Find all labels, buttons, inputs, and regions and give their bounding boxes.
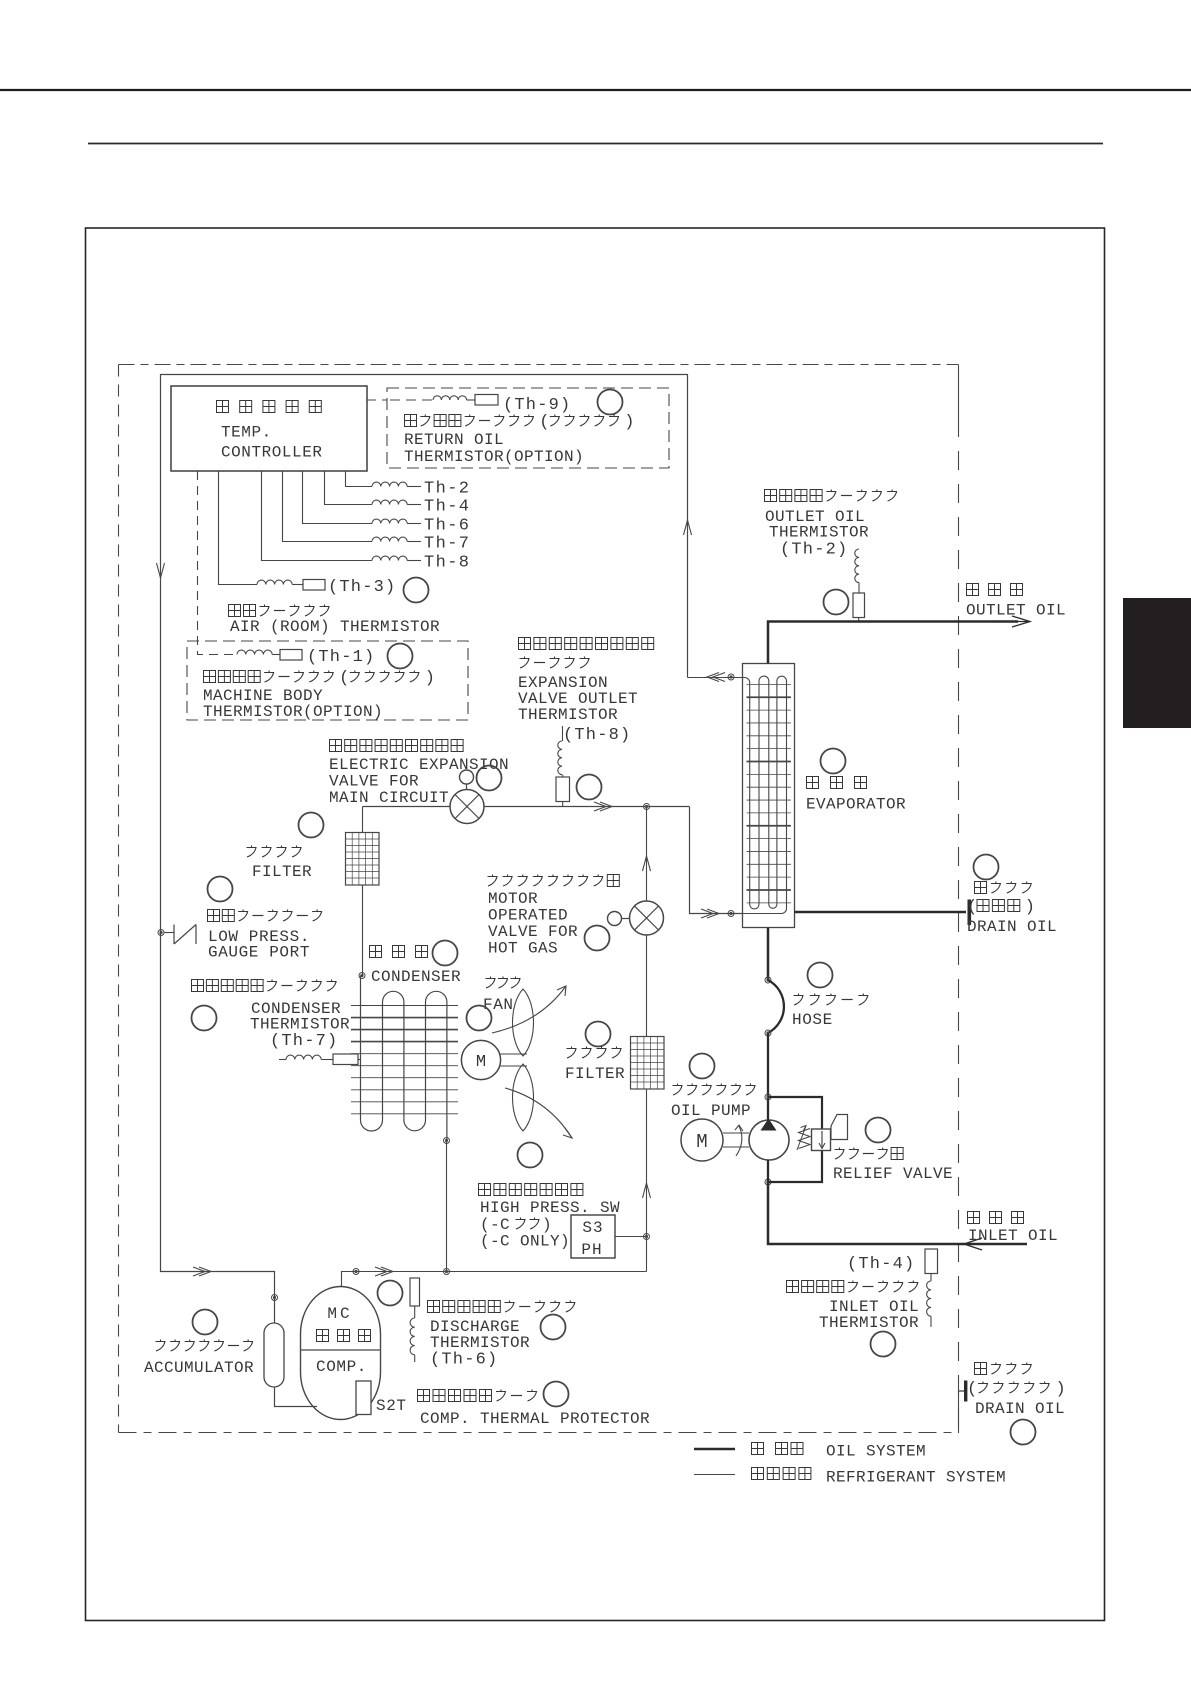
page top rule full width [0, 89, 1191, 91]
callout circle fan [467, 1006, 492, 1031]
Th-6 sensor body [410, 1278, 420, 1306]
svg-text:(: ( [539, 413, 549, 432]
svg-text:(Th-2): (Th-2) [780, 541, 848, 560]
node suction tap for gauge port [158, 930, 164, 936]
Th-9 lead to body [467, 399, 475, 401]
filter1 crosshatch body [346, 833, 380, 886]
wire S3 box to bypass line [615, 1236, 647, 1238]
svg-text:(Th-4): (Th-4) [847, 1255, 915, 1274]
drain pan tap [959, 1390, 965, 1392]
electric expansion valve labels [330, 740, 342, 752]
relief valve pilot box [831, 1115, 848, 1140]
wire valve outlet drop to evaporator inlet [690, 807, 743, 914]
accumulator labels [156, 1340, 166, 1352]
node hose bottom [765, 1030, 771, 1036]
Th-8 sensor drop wire [562, 726, 564, 741]
Th-2 sensor coil [855, 549, 859, 583]
drain pan labels [975, 1363, 987, 1375]
svg-text:ELECTRIC EXPANSION: ELECTRIC EXPANSION [329, 756, 509, 774]
svg-text:OUTLET OIL: OUTLET OIL [966, 602, 1066, 620]
callout circle relief valve [866, 1118, 891, 1143]
legend refrigerant labels [752, 1468, 764, 1480]
svg-text:DRAIN OIL: DRAIN OIL [975, 1400, 1065, 1418]
svg-text:(: ( [967, 1380, 977, 1399]
return oil thermistor Th-9 dashed option box [387, 388, 669, 468]
callout circle hose [808, 963, 833, 988]
thermal protector labels [418, 1390, 430, 1402]
callout circle Th-9 [598, 390, 623, 415]
lead Th-8 [407, 560, 421, 562]
relief valve adjust arrow [797, 1126, 806, 1150]
svg-text:THERMISTOR(OPTION): THERMISTOR(OPTION) [404, 448, 584, 466]
node pump bottom [765, 1179, 771, 1185]
svg-text:(Th-7): (Th-7) [270, 1032, 338, 1051]
inductor coil Th-9 [433, 396, 467, 400]
discharge nodes [353, 1269, 359, 1275]
oil outlet labels [967, 584, 979, 596]
compressor internal divider [300, 1349, 380, 1351]
svg-text:EVAPORATOR: EVAPORATOR [806, 796, 906, 814]
svg-text:THERMISTOR: THERMISTOR [819, 1314, 919, 1332]
relief valve labels [835, 1148, 845, 1160]
inductor coil Th-2 [372, 482, 407, 486]
callout circle outlet thermistor [824, 590, 849, 615]
pump direction triangle [761, 1119, 777, 1131]
arrow up on bypass riser [643, 856, 651, 871]
thermal protector S2T body [356, 1381, 371, 1415]
svg-text:HOT GAS: HOT GAS [488, 940, 558, 958]
fan blade upper [513, 989, 534, 1056]
gauge port lead [164, 932, 174, 934]
accumulator vessel [264, 1323, 284, 1387]
svg-text:THERMISTOR: THERMISTOR [518, 706, 618, 724]
arrow into evaporator inlet [707, 909, 719, 918]
evaporator serpentine [688, 676, 787, 913]
callout circle hot gas valve [585, 926, 610, 951]
air flow arrow upper [492, 986, 566, 1033]
svg-text:): ) [624, 413, 634, 432]
relief valve spring [799, 1129, 811, 1149]
Th-8 body to pipe [562, 775, 564, 777]
svg-text:Th-4: Th-4 [424, 498, 470, 517]
callout circle Th-8 [577, 775, 602, 800]
svg-text:(Th-9): (Th-9) [503, 396, 571, 415]
inductor coil Th-4 [372, 500, 407, 504]
svg-text:Th-2: Th-2 [424, 480, 470, 499]
thermistor body Th-9 [475, 395, 498, 406]
svg-text:(Th-8): (Th-8) [563, 726, 631, 745]
node S3 junction [644, 1234, 650, 1240]
legend refrigerant line [694, 1474, 735, 1476]
callout circle condenser [433, 941, 458, 966]
svg-text:TEMP.: TEMP. [221, 424, 272, 442]
callout circle evaporator [821, 749, 846, 774]
wire refrigerant suction line top and left [161, 375, 688, 1324]
condenser label japanese [370, 946, 382, 958]
svg-text:Th-6: Th-6 [424, 517, 470, 536]
callout circles discharge thermistor [378, 1281, 403, 1306]
wire filter1 to condenser [362, 885, 364, 975]
svg-text:MAIN CIRCUIT: MAIN CIRCUIT [329, 789, 449, 807]
inlet oil labels [968, 1212, 980, 1224]
arrow down on suction left drop [157, 563, 165, 578]
svg-text:OIL PUMP: OIL PUMP [671, 1102, 751, 1120]
air room thermistor label japanese [229, 605, 241, 617]
compressor shell [301, 1287, 381, 1420]
filter2 crosshatch body [631, 1037, 665, 1090]
svg-text:CONTROLLER: CONTROLLER [221, 444, 323, 462]
node condenser outlet bottom [444, 1138, 450, 1144]
svg-text:(: ( [339, 669, 349, 688]
machine boundary dashed top edge [119, 364, 959, 366]
arrow right on discharge [381, 1267, 393, 1276]
lead Th-6 [407, 523, 421, 525]
junction node above accumulator [272, 1295, 278, 1301]
machine body thermistor Th-1 dashed option box [187, 641, 468, 720]
svg-text:S3: S3 [582, 1219, 603, 1237]
arrow up on bypass lower [643, 1183, 651, 1198]
Th-9 label japanese [405, 415, 417, 427]
svg-text:(Th-6): (Th-6) [430, 1351, 498, 1370]
callout circle expansion valve [477, 766, 502, 791]
temp controller label kanji [217, 401, 229, 413]
svg-text:THERMISTOR: THERMISTOR [769, 524, 869, 542]
hose labels [794, 994, 804, 1006]
svg-text:(Th-1): (Th-1) [307, 648, 375, 667]
machine body thermistor label japanese [204, 671, 216, 683]
svg-text:COMP. THERMAL PROTECTOR: COMP. THERMAL PROTECTOR [420, 1410, 650, 1428]
compressor discharge wire [342, 1272, 647, 1287]
svg-text:PH: PH [581, 1241, 602, 1259]
legend oil system labels [752, 1443, 764, 1455]
temp controller box [171, 386, 367, 471]
fan label [486, 977, 496, 989]
black index tab on right edge [1123, 598, 1191, 728]
svg-text:): ) [425, 669, 435, 688]
svg-text:VALVE FOR: VALVE FOR [488, 923, 578, 941]
node evaporator outlet [728, 674, 734, 680]
node pump top [765, 1094, 771, 1100]
wire controller stub to Th-6 [303, 471, 373, 524]
motor operated valve stem [622, 918, 630, 920]
wire accumulator to compressor [275, 1387, 318, 1407]
bypass line valve to filter2 [646, 935, 648, 1036]
callout circle Th-3 [404, 578, 429, 603]
oil pump labels [673, 1084, 683, 1096]
drain end bar [968, 900, 972, 926]
wire condenser riser to expansion valve [363, 806, 451, 808]
evaporator oil drain pipe [795, 911, 967, 914]
wire controller stub to Th-7 [283, 471, 373, 542]
svg-text:THERMISTOR: THERMISTOR [250, 1016, 350, 1034]
expansion valve stem and motor head [466, 784, 468, 790]
page second rule [88, 143, 1103, 145]
wire controller stub to Th-3 [219, 471, 258, 585]
callout circle drain pan [1011, 1420, 1036, 1445]
junction node hot gas joins valve outlet [644, 804, 650, 810]
svg-text:): ) [542, 1216, 552, 1234]
pump body circle [749, 1120, 789, 1160]
wire condenser to discharge line [446, 1141, 448, 1272]
thermistor body Th-1 [280, 650, 302, 661]
wire expansion valve outlet [484, 806, 690, 808]
thermistor body Th-7 [333, 1054, 358, 1065]
main border frame [86, 228, 1105, 1621]
svg-text:OPERATED: OPERATED [488, 907, 568, 925]
svg-text:): ) [1056, 1380, 1066, 1399]
wire controller stub to Th-4 [325, 471, 373, 505]
oil outlet pipe from evaporator top [768, 622, 1018, 664]
svg-text:THERMISTOR: THERMISTOR [430, 1334, 530, 1352]
oil pipe evaporator bottom [767, 928, 770, 981]
Th-4 sensor body [925, 1249, 938, 1274]
air flow arrow lower [505, 1088, 572, 1138]
pump rotation arrow [736, 1126, 742, 1156]
svg-text:THERMISTOR(OPTION): THERMISTOR(OPTION) [203, 703, 383, 721]
callout circle accumulator [193, 1310, 218, 1335]
oil inlet pipe [768, 1182, 1027, 1244]
arrow on valve outlet wire [600, 802, 612, 811]
gauge port symbol [173, 925, 175, 945]
svg-text:(-C: (-C [480, 1216, 510, 1234]
callout circle filter1 [299, 813, 324, 838]
inductor coil Th-1 [237, 650, 272, 654]
high press switch labels [479, 1184, 491, 1196]
drain oil evaporator labels [975, 882, 987, 894]
condenser serpentine tubes [361, 976, 447, 1141]
svg-text:(-C ONLY): (-C ONLY) [480, 1233, 570, 1251]
Th-8 vertical coil [558, 741, 562, 775]
svg-text:Th-8: Th-8 [424, 554, 470, 573]
callout circle Th-1 [388, 644, 413, 669]
svg-text:HOSE: HOSE [792, 1011, 833, 1029]
callout circle evap drain [974, 855, 999, 880]
fan shaft [501, 1053, 528, 1055]
Th-9 dashed lead inside box [390, 399, 433, 401]
svg-text:RETURN OIL: RETURN OIL [404, 431, 504, 449]
hot gas bypass riser [646, 807, 648, 902]
node hose top [765, 977, 771, 983]
arrow out of evaporator [707, 673, 719, 682]
callout circle thermal protector [544, 1382, 569, 1407]
lead Th-2 [407, 486, 421, 488]
callout circle high press switch [518, 1143, 543, 1168]
fan blade lower [513, 1064, 534, 1131]
relief valve body [812, 1129, 831, 1151]
boundary solid segment below drain pan [958, 1391, 960, 1433]
svg-text:VALVE FOR: VALVE FOR [329, 773, 419, 791]
svg-text:CONDENSER: CONDENSER [371, 968, 461, 986]
svg-text:DRAIN OIL: DRAIN OIL [967, 918, 1057, 936]
node condenser inlet top [359, 973, 365, 979]
filter1 label [247, 846, 257, 858]
callout circle Th-7 [192, 1006, 217, 1031]
Th-8 body [556, 777, 570, 802]
node at evaporator inlet [728, 911, 734, 917]
arrow up on suction riser [684, 520, 692, 535]
expansion valve body [450, 790, 484, 824]
machine boundary dashed bottom edge [119, 1432, 959, 1434]
thermistor body Th-3 [303, 580, 325, 591]
compressor kanji label [317, 1330, 329, 1342]
wire controller stub to Th-8 [262, 471, 373, 561]
svg-text:GAUGE PORT: GAUGE PORT [208, 944, 310, 962]
svg-text:REFRIGERANT SYSTEM: REFRIGERANT SYSTEM [826, 1469, 1006, 1487]
arrow right toward accumulator [199, 1267, 211, 1276]
legend oil system line [694, 1448, 735, 1451]
rubber hose arc [768, 980, 784, 1033]
hot gas bypass labels [488, 875, 498, 887]
bypass line filter2 down [646, 1089, 648, 1272]
evaporator fins [747, 683, 791, 685]
Th-3 lead [292, 584, 303, 586]
lead temp controller to Th-9 box [367, 399, 387, 401]
dashed wire controller to Th-1 [198, 471, 238, 655]
pump shaft [723, 1132, 749, 1134]
svg-text:INLET OIL: INLET OIL [968, 1227, 1058, 1245]
Th-1 lead [272, 654, 280, 656]
S3 PH switch box [571, 1215, 615, 1258]
condenser fins [351, 1005, 458, 1007]
gauge port labels [208, 910, 220, 922]
svg-text:): ) [1025, 898, 1035, 917]
svg-text:S2T: S2T [376, 1397, 407, 1415]
fan motor M circle [461, 1040, 500, 1079]
pump motor M circle [681, 1119, 723, 1161]
Th-2 sensor body [853, 593, 865, 618]
machine boundary dashed left edge [118, 365, 120, 1433]
svg-text:M: M [476, 1053, 486, 1072]
wire controller stub to Th-2 [346, 471, 373, 487]
callout circle Th-4 [871, 1332, 896, 1357]
svg-text:FILTER: FILTER [252, 863, 312, 881]
svg-text:ACCUMULATOR: ACCUMULATOR [144, 1359, 254, 1377]
discharge thermistor labels [428, 1301, 440, 1313]
evaporator label japanese [807, 777, 819, 789]
inductor coil Th-6 [372, 519, 407, 523]
callout circle gauge port [208, 877, 233, 902]
lead Th-4 [407, 504, 421, 506]
callout circle oil pump [690, 1054, 715, 1079]
machine boundary dashed right edge [958, 418, 960, 1433]
svg-text:MC: MC [327, 1305, 352, 1323]
label japanese line2 sa-mi-su-ta [520, 657, 530, 669]
svg-text:(Th-3): (Th-3) [328, 578, 396, 597]
svg-text:COMP.: COMP. [316, 1358, 367, 1376]
svg-text:MOTOR: MOTOR [488, 890, 538, 908]
relief valve internal arrow [821, 1131, 823, 1147]
inductor coil Th-8 [372, 556, 407, 560]
svg-text:AIR (ROOM) THERMISTOR: AIR (ROOM) THERMISTOR [230, 618, 440, 636]
pump outlet pipe [767, 1160, 769, 1182]
Th-7 lead and coil [279, 1059, 286, 1061]
outlet oil thermistor labels [765, 490, 777, 502]
svg-text:OIL SYSTEM: OIL SYSTEM [826, 1443, 926, 1461]
relief valve bypass loop [768, 1097, 822, 1129]
svg-text:RELIEF VALVE: RELIEF VALVE [833, 1165, 953, 1183]
Th-4 coil [927, 1281, 931, 1316]
wire expansion valve line down to filter1 [362, 807, 364, 833]
inductor coil Th-7 [372, 537, 407, 541]
inductor coil Th-3 [257, 580, 292, 584]
svg-text:Th-7: Th-7 [424, 535, 470, 554]
inlet arrow [964, 1238, 982, 1250]
Th-6 coil [410, 1318, 415, 1355]
oil outlet arrow [1012, 616, 1030, 627]
svg-text:M: M [696, 1131, 707, 1153]
svg-text:(: ( [967, 898, 977, 917]
machine boundary right edge solid start [958, 365, 960, 419]
svg-text:FAN: FAN [483, 996, 514, 1014]
lead Th-7 [407, 541, 421, 543]
expansion valve outlet thermistor label japanese line1 [519, 638, 531, 650]
svg-text:FILTER: FILTER [565, 1065, 625, 1083]
inlet oil thermistor labels [787, 1281, 799, 1293]
motor operated valve body [630, 901, 664, 935]
evaporator outer shell [743, 664, 795, 928]
condenser thermistor labels [192, 980, 204, 992]
callout circle filter2 [586, 1022, 611, 1047]
filter2 label [567, 1047, 577, 1059]
oil pipe hose to pump [767, 1033, 769, 1120]
